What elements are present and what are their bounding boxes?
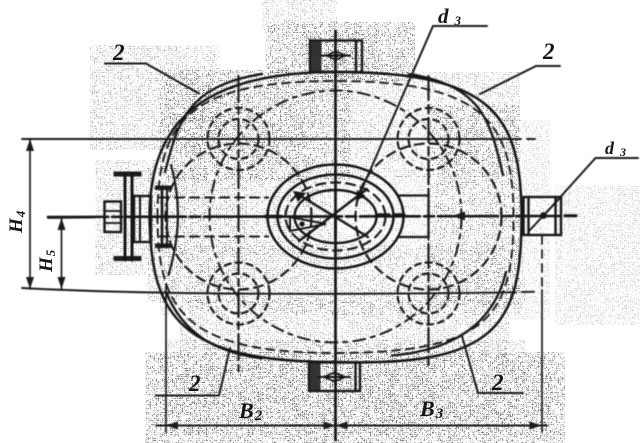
- flange disc: [114, 172, 142, 177]
- right boss hidden line down: [541, 236, 543, 290]
- bolt circles bottom-left: [208, 263, 270, 325]
- leader 2 top-right: [480, 66, 560, 94]
- leader 2 bottom-left: [156, 348, 230, 396]
- dimension H4 line: [29, 139, 31, 289]
- dimension B line: [156, 425, 547, 427]
- leader 2 top-left: [105, 64, 199, 94]
- corner crossing arc bottom-right: [392, 272, 506, 356]
- top boss diamond: [327, 51, 345, 60]
- center diagonal B: [299, 189, 367, 241]
- corner crossing arc top-left: [165, 74, 262, 172]
- thick dashes right of ellipse center: [379, 213, 405, 216]
- central boss neck right: [398, 196, 429, 238]
- svg-text:2: 2: [188, 371, 201, 396]
- leader 2 bottom-right: [462, 336, 523, 393]
- extension line B right: [541, 290, 543, 432]
- dashed aux line left at y 197.5: [160, 196, 268, 198]
- bearing cover block: [134, 196, 151, 242]
- dash right of top line: [527, 138, 535, 140]
- nut: [105, 202, 122, 233]
- bore dashed circle left: [166, 144, 312, 290]
- leader d right: [545, 158, 638, 214]
- svg-text:2: 2: [491, 370, 504, 395]
- corner crossing arc top-right: [409, 74, 503, 175]
- bolt circles top-left: [208, 108, 270, 170]
- shaft boss arc inside housing: [169, 165, 178, 275]
- center cross diagonal A with arrowhead: [296, 193, 368, 237]
- bore dashed circle right: [356, 144, 502, 290]
- vertical centerline left: [237, 76, 239, 371]
- vertical centerline right: [427, 76, 429, 367]
- horizontal line bottom baseline: [22, 288, 516, 294]
- leader d3 top: [359, 26, 488, 197]
- housing outline (superellipse oval): [150, 72, 522, 362]
- bolt circles bottom-right: [398, 263, 460, 325]
- right boss center dot: [540, 212, 547, 219]
- inner wall dashed oval: [158, 81, 514, 353]
- central bearing ellipses: [268, 165, 404, 269]
- horizontal line top (H4 level): [22, 138, 521, 140]
- bolt pitch circle: [210, 91, 462, 343]
- bolt circles top-right: [398, 108, 460, 170]
- dashed aux line left at y 236.5: [160, 235, 268, 237]
- extension line B left: [165, 284, 167, 432]
- svg-text:2: 2: [112, 40, 125, 65]
- short extension at 218 left: [48, 217, 95, 220]
- thick dash left of ellipse center: [265, 215, 281, 218]
- horizontal centerline: [48, 216, 561, 217]
- vertical centerline main: [334, 31, 337, 440]
- right shaft boss: [524, 197, 562, 235]
- bottom boss: [309, 363, 360, 392]
- corner crossing arc bottom-left: [166, 292, 262, 359]
- right boss diagonal (leader through): [529, 199, 559, 231]
- dimension H5 line: [61, 218, 63, 289]
- section triangle marker: [290, 217, 326, 231]
- center vertical thick segment: [334, 218, 337, 239]
- svg-text:2: 2: [542, 39, 555, 64]
- small left arrow on centerline right: [452, 212, 465, 221]
- top boss: [310, 41, 362, 73]
- bottom boss diamond: [324, 373, 345, 382]
- second disc: [155, 186, 172, 191]
